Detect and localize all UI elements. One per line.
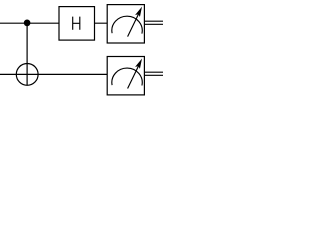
background (0, 0, 163, 106)
wire q1 (0, 73, 108, 75)
meter M0 (107, 5, 144, 43)
cnot target (16, 64, 38, 86)
meter M1 (107, 57, 144, 95)
wire control-vertical (26, 23, 28, 86)
control dot (24, 20, 31, 27)
classical wire c0 (144, 21, 163, 24)
classical wire c1 (144, 72, 163, 75)
wire q0 (0, 22, 108, 24)
gate H (59, 7, 95, 41)
